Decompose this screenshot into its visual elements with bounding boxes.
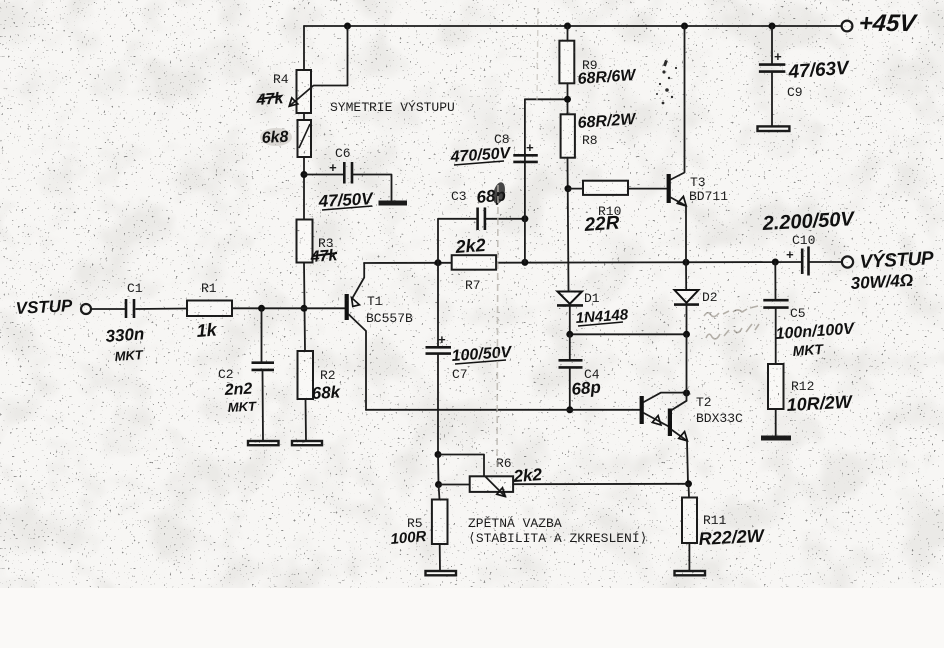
wire R5 top <box>439 485 440 500</box>
capacitor C7 <box>426 333 452 354</box>
label C4 <box>584 367 600 382</box>
label R11 <box>703 513 727 528</box>
label C2 <box>218 367 234 382</box>
ground of R12 <box>761 436 791 441</box>
transistor T1 emitter with arrow <box>352 263 365 306</box>
transistor T2 emitter 1 with arrow <box>644 413 668 426</box>
capacitor C5 <box>763 300 788 307</box>
wire VSTUP to C1 <box>92 308 125 310</box>
label R8 <box>582 133 598 148</box>
wire mid line right of C10 <box>810 261 842 263</box>
wire R4 to R5k6 <box>303 113 305 120</box>
terminal +45V <box>842 21 853 32</box>
value 1k of R1 <box>196 320 218 341</box>
node junction T2 collector <box>683 390 690 397</box>
label BD711 <box>689 189 728 204</box>
resistor R3 <box>297 220 313 263</box>
wire T2 emitter to R11 node <box>687 441 688 484</box>
resistor R7 <box>452 255 496 270</box>
wire R1 to T1 base <box>232 307 345 309</box>
wire R3 to R2 with T1 base tap <box>304 263 305 352</box>
node junction C5 tap <box>772 259 779 266</box>
wire mid output node line <box>364 262 801 263</box>
capacitor C8 <box>513 141 538 162</box>
wire rail to R9 <box>567 26 569 41</box>
value 2n2 MKT of C2 <box>223 381 257 415</box>
capacitor C1 <box>126 299 134 318</box>
value 68p of C3 with ink smudge <box>476 181 507 207</box>
wire to R10 <box>568 188 583 190</box>
node junction rail-R9 <box>564 23 571 30</box>
value 22R of R10 <box>583 213 621 236</box>
wire riser to C3 level <box>438 219 477 263</box>
transistor T1 collector <box>349 315 366 411</box>
capacitor C9 <box>759 50 785 72</box>
transistor T2 base bar 2 <box>668 409 672 437</box>
value 47k of R3 <box>309 247 339 266</box>
wire R2 to ground <box>305 399 308 441</box>
node junction rail-C9 <box>769 23 776 30</box>
label R7 <box>465 278 481 293</box>
node junction C4 top <box>566 331 573 338</box>
transistor T3 emitter with arrow <box>671 196 686 206</box>
label C1 <box>127 281 143 296</box>
value 6k8 <box>260 128 292 147</box>
wire C1 to R1 <box>136 308 187 311</box>
ground of C2 <box>248 441 279 445</box>
transistor T2 emitter 2 with arrow <box>672 430 687 441</box>
value 100n/100V MKT of C5 <box>775 320 856 359</box>
node junction C6 tap <box>301 171 308 178</box>
node junction T1 base / input <box>301 305 308 312</box>
label C7 <box>452 367 468 382</box>
value 330n MKT of C1 <box>105 324 145 364</box>
value 68k of R2 <box>311 382 342 403</box>
label BDX33C <box>696 411 743 426</box>
resistor R11 <box>682 498 697 544</box>
diode D2 <box>674 290 699 305</box>
wire to C6 <box>304 174 344 176</box>
wire down to C2 <box>261 308 263 361</box>
wire R5 to ground <box>439 544 441 571</box>
label ZPETNA VAZBA <box>468 516 562 531</box>
wire 6k8 to R3 with C6 tap <box>303 157 305 220</box>
diode D1 <box>557 292 583 306</box>
value 68R/6W of R9 <box>577 67 638 88</box>
label C9 <box>787 85 803 100</box>
stray scan marks near T3 <box>656 60 677 105</box>
label VSTUP input <box>15 296 73 318</box>
wire R11 to ground <box>688 543 690 571</box>
node junction C2 tap <box>258 305 265 312</box>
ground of R2 <box>292 441 322 445</box>
wire R8 down to D1 (crosses output line) <box>568 158 569 292</box>
label +45V <box>857 10 918 37</box>
label R2 <box>320 368 336 383</box>
resistor 6k8 body <box>298 120 312 157</box>
wire to R6 left <box>439 484 470 486</box>
value 47/50V of C6 <box>317 189 374 211</box>
wire C5 tap down <box>774 262 776 299</box>
capacitor C6 <box>329 161 352 184</box>
film scratch streaks <box>497 8 538 470</box>
wire C5 to R12 <box>775 308 777 364</box>
wire C9 tap down <box>771 26 773 63</box>
ground of R11 <box>675 571 706 575</box>
label R4 <box>273 72 289 87</box>
wire C6 to ground <box>352 175 392 202</box>
label R6 <box>496 456 512 471</box>
node junction R9/R8/C8 <box>564 96 571 103</box>
wire top +45V rail <box>304 25 841 27</box>
node junction C7/R6 wiper <box>435 451 442 458</box>
label SYMETRIE VYSTUPU <box>330 100 455 115</box>
value 68R/2W of R8 <box>577 111 638 132</box>
label D1 <box>584 291 600 306</box>
label R1 <box>201 281 217 296</box>
resistor R4 wiper arrow to rail <box>289 26 347 106</box>
resistor R6 trimmer body <box>470 476 513 496</box>
wire T3 emitter to output node <box>685 206 687 262</box>
ground of C6 <box>379 201 408 206</box>
label T3 <box>690 175 706 190</box>
wire T2 collector vertical <box>686 334 688 401</box>
pencil scribble near D2 <box>704 306 759 339</box>
label C5 <box>790 306 806 321</box>
node junction R5/R6 left <box>435 481 442 488</box>
wire D2 to bias line <box>686 305 688 335</box>
wire C7 riser down <box>437 263 439 346</box>
transistor T2 base bar 1 <box>640 396 644 424</box>
value 100R of R5 <box>390 528 427 548</box>
label VYSTUP output <box>859 247 934 273</box>
wire R11 top <box>688 484 691 498</box>
wire C4 top <box>569 334 571 359</box>
node junction rail-R4 wiper <box>344 23 351 30</box>
node junction C3/C7 riser <box>435 259 442 266</box>
node junction T3 emitter / D2 <box>683 259 690 266</box>
value 10R/2W of R12 <box>786 392 854 415</box>
ground of R5 <box>426 571 457 575</box>
wire R6 right to R11 node <box>513 483 688 485</box>
wire C7 node down to R5 node <box>437 455 440 485</box>
node junction R10 tap <box>565 185 572 192</box>
label BC557B <box>366 311 413 326</box>
value 68p of C4 <box>571 378 602 399</box>
wire R10 to T3 base <box>628 188 667 190</box>
node junction R11/R6 <box>685 480 692 487</box>
resistor R10 <box>583 181 628 195</box>
wire T1 collector to T2 base <box>366 409 640 411</box>
label STABILITA A ZKRESLENI <box>468 531 647 546</box>
resistor R4 potentiometer body <box>297 70 312 113</box>
label R9 <box>582 58 598 73</box>
capacitor C2 <box>252 363 275 370</box>
node junction C8 riser <box>521 259 528 266</box>
node junction C3-C8 riser <box>521 215 528 222</box>
label C10 <box>792 233 815 248</box>
resistor R2 <box>298 351 314 399</box>
capacitor C10 plates <box>786 247 809 276</box>
value 2k2 of R6 <box>512 465 543 486</box>
value 2.200/50V of C10 <box>761 208 856 235</box>
value R22/2W of R11 <box>698 526 766 549</box>
value 2k2 of R7 <box>454 235 486 257</box>
transistor T3 collector to rail <box>671 26 685 180</box>
value 470/50V of C8 <box>449 145 512 166</box>
terminal VSTUP <box>81 304 91 314</box>
value 100/50V of C7 <box>451 344 513 365</box>
wire R6 wiper feed <box>438 455 484 477</box>
node junction D2/T2 collector <box>683 331 690 338</box>
transistor T3 base bar <box>667 174 671 203</box>
label C3 <box>451 189 467 204</box>
capacitor C3 <box>478 208 485 231</box>
resistor R5 <box>432 500 448 545</box>
transistor T2 collector 2 <box>672 401 687 410</box>
resistor R9 <box>559 41 574 84</box>
resistor R12 <box>768 364 784 409</box>
wire D2 top from output node <box>685 262 687 290</box>
terminal VYSTUP <box>842 256 853 267</box>
ground of C9 <box>758 126 790 131</box>
wire C3 to C8 riser <box>486 218 525 220</box>
value 1N4148 of D1 <box>575 306 629 327</box>
node junction C4/T2 base <box>566 406 573 413</box>
resistor R8 <box>561 114 575 157</box>
wire bias line D1-D2 <box>570 333 687 335</box>
wire R9 to R8 <box>567 83 569 114</box>
wire C2 to ground <box>262 370 265 441</box>
label R3 <box>318 236 334 251</box>
resistor R1 <box>187 301 232 317</box>
label R5 <box>407 516 423 531</box>
label C8 <box>494 132 510 147</box>
value 47k of R4 <box>255 90 285 109</box>
wire C9 to ground <box>771 72 773 127</box>
wire C8 riser top to R9/R8 junction <box>525 99 568 262</box>
wire C4 to T2 base line <box>569 369 571 410</box>
transistor T2 collector 1 <box>644 393 687 402</box>
value 30W/4ohm <box>850 271 913 293</box>
label C6 <box>335 146 351 161</box>
transistor T1 base bar <box>345 294 349 320</box>
wire rail to R4 <box>303 26 305 70</box>
label D2 <box>702 290 718 305</box>
wire R12 to ground <box>775 409 777 436</box>
node junction rail-T3 collector <box>681 23 688 30</box>
label R12 <box>791 379 814 394</box>
label T1 <box>367 294 383 309</box>
label R10 <box>598 204 621 219</box>
capacitor C4 <box>559 360 583 367</box>
wire C7 to R5/R6 node (crosses collector line) <box>437 355 439 455</box>
label T2 <box>696 395 712 410</box>
wire D1 to bias line <box>569 305 571 334</box>
value 47/63V of C9 <box>787 58 851 83</box>
